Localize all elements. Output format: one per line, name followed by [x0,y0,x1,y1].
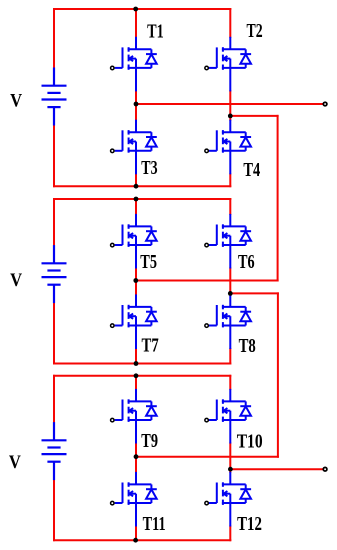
wire cell1 right leg lower [229,174,231,186]
node cell2 left leg midpoint (link from cell1) [133,278,138,283]
wire cell3 left leg upper [135,376,137,389]
wire cell1 left leg upper [135,9,137,37]
wire cell1 left rail upper [53,9,55,68]
terminal output B [323,467,327,471]
svg-text:T6: T6 [238,252,255,273]
svg-text:T4: T4 [243,160,260,181]
node cell1 bottom rail / left leg junction [134,184,139,189]
wire cell1 right leg upper [229,9,231,37]
wire cell3 left leg middle [135,444,137,472]
wire cell2 top rail [54,198,230,200]
battery V1 [42,68,67,126]
svg-text:V: V [10,91,22,112]
wire cell3 right leg lower [229,527,231,541]
svg-text:T7: T7 [142,335,159,356]
wire cell1 left leg middle [135,91,137,120]
wire cell3 left rail upper [53,376,55,423]
wire cell1 right leg middle [229,91,231,120]
transistor T6 (N-MOSFET with body diode) [205,214,251,269]
battery V2 [42,245,67,303]
transistor T9 (N-MOSFET with body diode) [111,389,157,444]
svg-text:T8: T8 [239,336,256,357]
wire cell2-cell3 link vertical [277,293,279,456]
wire cell3 top rail [54,375,230,377]
wire cell3 left leg lower [135,527,137,541]
wire cell2 bottom rail [54,363,230,365]
wire cell3 right leg middle [229,444,231,472]
svg-text:T1: T1 [147,22,164,43]
transistor T10 (N-MOSFET with body diode) [205,389,251,444]
wire cell2 left leg upper [135,199,137,214]
node cell3 top rail / left leg junction [134,373,139,378]
wire cell1 link horizontal from T2-T4 node [230,115,277,117]
wire cell1 top rail [54,8,230,10]
battery V3 [42,422,67,480]
wire link into cell3 left midpoint [136,456,278,458]
wire cell3 bottom rail [54,539,230,541]
wire link into cell2 left midpoint [136,280,278,282]
transistor T5 (N-MOSFET with body diode) [111,214,157,269]
node cell1 right leg midpoint (link tap) [228,114,233,119]
transistor T12 (N-MOSFET with body diode) [205,472,251,527]
transistor T8 (N-MOSFET with body diode) [205,294,251,349]
node cell3 left leg midpoint (link from cell2) [134,454,139,459]
node cell3 right leg midpoint (output B tap) [228,467,233,472]
wire cell2 left rail lower [53,303,55,364]
svg-text:T12: T12 [237,514,262,535]
svg-text:T11: T11 [143,514,166,535]
svg-text:V: V [10,270,22,291]
wire cell1-cell2 link vertical [277,116,279,281]
wire cell2 left rail upper [53,199,55,247]
wire cell2 right leg upper [229,199,231,214]
svg-text:V: V [9,452,21,473]
wire cell2 right leg middle [229,268,231,294]
wire cell1 bottom rail [54,185,230,187]
node cell2 top rail / left leg junction [134,197,139,202]
node cell2 bottom rail / left leg junction [134,361,139,366]
node cell1 top rail / left leg junction [133,7,138,12]
wire output B horizontal [230,468,323,470]
node cell2 right leg midpoint (link tap) [228,291,233,296]
wire cell1 left leg lower [135,174,137,186]
transistor T3 (N-MOSFET with body diode) [111,120,157,175]
transistor T7 (N-MOSFET with body diode) [111,294,157,349]
svg-text:T2: T2 [247,21,263,42]
svg-text:T9: T9 [141,431,158,452]
wire cell2 link horizontal from T6-T8 node [230,292,278,294]
wire cell3 right leg upper [229,376,231,389]
wire cell3 left rail lower [53,481,55,540]
terminal output A [323,102,327,106]
node cell3 bottom rail / left leg junction [133,538,138,543]
transistor T2 (N-MOSFET with body diode) [205,37,251,92]
wire output A horizontal [136,103,323,105]
wire cell2 left leg middle [135,268,137,294]
transistor T11 (N-MOSFET with body diode) [111,472,157,527]
wire cell2 right leg lower [229,349,231,364]
transistor T1 (N-MOSFET with body diode) [111,37,157,92]
svg-text:T5: T5 [140,252,157,273]
transistor T4 (N-MOSFET with body diode) [205,120,251,175]
wire cell1 left rail lower [53,125,55,186]
svg-text:T3: T3 [141,158,157,179]
wire cell2 left leg lower [135,349,137,364]
svg-text:T10: T10 [237,431,263,452]
node cell1 left leg midpoint (output A tap) [134,102,139,107]
